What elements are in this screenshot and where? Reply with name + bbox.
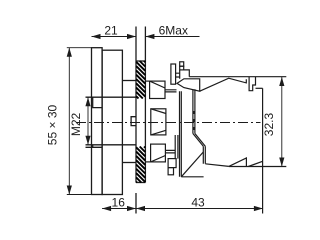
svg-text:6Max: 6Max [159, 24, 188, 38]
block top edge / 32.3 top extension [189, 76, 286, 78]
bezel inner bore top step [93, 97, 102, 107]
upper thin terminal [171, 64, 176, 84]
svg-text:55 × 30: 55 × 30 [46, 104, 60, 145]
dim bottom line 16 and 43 [102, 208, 263, 210]
upper funnel contact carrier [150, 81, 165, 98]
32.3 top arrow [279, 77, 284, 86]
panel back line [144, 27, 146, 183]
neck bottom edge / M22 bottom extension [86, 144, 136, 146]
block front face double line [180, 91, 182, 177]
43 right arrow [254, 206, 263, 211]
centerline [76, 122, 261, 124]
head-to-panel lower line [122, 162, 135, 164]
lower funnel contact carrier [151, 144, 166, 162]
upper funnel stub to panel [145, 80, 149, 82]
bezel ring front [92, 48, 103, 195]
arrowheads [67, 34, 285, 211]
M22 bottom arrow [85, 136, 90, 145]
bezel inner bore bottom step [86, 145, 102, 148]
upper connector double line [165, 90, 177, 92]
dim 55x30 line [68, 48, 70, 195]
block bottom edge / 32.3 bottom extension [229, 166, 286, 168]
head body [102, 50, 122, 194]
dim 32.3 line [281, 77, 283, 167]
bottom triangle bump [229, 158, 247, 167]
55x30 bottom arrow [67, 186, 72, 195]
panel front line [135, 27, 137, 214]
6Max arrow [145, 34, 154, 39]
dim 6Max leader [145, 36, 199, 38]
terminal screw [180, 62, 184, 66]
contact strip upper double vertical [193, 89, 195, 133]
32.3 bottom arrow [279, 158, 284, 167]
panel hatch lower band [136, 147, 145, 183]
16 left arrow [102, 206, 111, 211]
strip tick marks [193, 111, 195, 130]
trip lever tent [200, 78, 247, 91]
neck top edge / M22 top extension [86, 96, 136, 98]
svg-text:43: 43 [191, 196, 205, 210]
svg-text:M22: M22 [69, 113, 83, 137]
rear foot diagonal [248, 161, 262, 166]
dim 55x30 top extension [67, 47, 92, 49]
svg-text:16: 16 [112, 196, 126, 210]
svg-text:32.3: 32.3 [262, 112, 276, 136]
lower connector double line [165, 150, 175, 153]
lower thin terminal double vertical [175, 135, 178, 159]
panel top cap [136, 60, 145, 62]
terminal clamp [180, 70, 190, 79]
dim 55x30 bottom extension [67, 194, 123, 196]
svg-text:21: 21 [104, 24, 118, 38]
21 left arrow [92, 34, 101, 39]
panel bottom cap [136, 182, 145, 184]
lower foot rect 1 [168, 159, 176, 168]
21 right arrow [127, 34, 136, 39]
block rear edge / 43 extension [262, 88, 264, 213]
contact strip lower double vertical [203, 146, 205, 164]
dim M22 line [87, 97, 89, 145]
terminal link stubs [176, 73, 180, 77]
lower funnel stub to panel [145, 161, 150, 163]
head-to-panel upper line [122, 80, 135, 82]
block bottom diagonal from strip [205, 164, 229, 167]
anti-rotation bump on neck [131, 117, 136, 126]
rear stub [256, 87, 263, 89]
bottom horn diagonal [181, 152, 203, 177]
43 left arrow [136, 206, 145, 211]
M22 top arrow [85, 97, 90, 106]
block top rear piece [249, 77, 255, 91]
middle contact rect [151, 109, 166, 135]
16 right arrow [127, 206, 136, 211]
contact strip bend double diagonal [193, 134, 205, 147]
bottom horn bottom edge [181, 176, 203, 178]
lower foot rect 2 [168, 168, 173, 175]
latch wedge (points left) [177, 79, 200, 91]
panel hatch upper band [136, 61, 145, 99]
dim 21 line [92, 36, 137, 38]
55x30 top arrow [67, 48, 72, 57]
